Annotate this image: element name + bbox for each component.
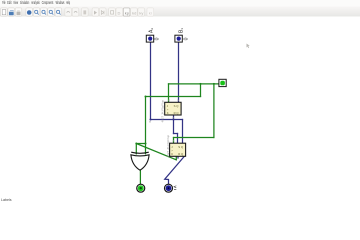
svg-text:R Q: R Q [178, 152, 184, 156]
svg-text:View: View [13, 0, 18, 5]
svg-text:Help: Help [66, 0, 70, 5]
svg-text:Edit: Edit [7, 0, 12, 5]
svg-text:4027 JK-FlipFlop: 4027 JK-FlipFlop [160, 99, 164, 122]
svg-text:S Q: S Q [174, 104, 180, 108]
svg-text:File: File [2, 0, 6, 5]
svg-text:0: 0 [154, 37, 160, 40]
svg-text:4027 JK-FlipFlop: 4027 JK-FlipFlop [166, 134, 170, 157]
svg-text:Windows: Windows [56, 0, 65, 5]
svg-text:ky: ky [139, 10, 143, 15]
svg-text:Labels: Labels [1, 198, 12, 202]
svg-text:Analysis: Analysis [31, 0, 40, 5]
svg-text:0: 0 [183, 37, 189, 40]
svg-text:Simulation: Simulation [20, 0, 30, 5]
svg-text:D: D [118, 10, 121, 15]
svg-text:K: K [167, 111, 169, 115]
svg-text:kd: kd [132, 10, 136, 15]
svg-text:R Q: R Q [174, 111, 180, 115]
svg-text:S Q: S Q [178, 145, 184, 149]
svg-text:B₁: B₁ [179, 28, 185, 33]
svg-text:A₁: A₁ [148, 28, 154, 33]
svg-text:Components: Components [42, 0, 54, 5]
svg-text:K: K [171, 152, 173, 156]
